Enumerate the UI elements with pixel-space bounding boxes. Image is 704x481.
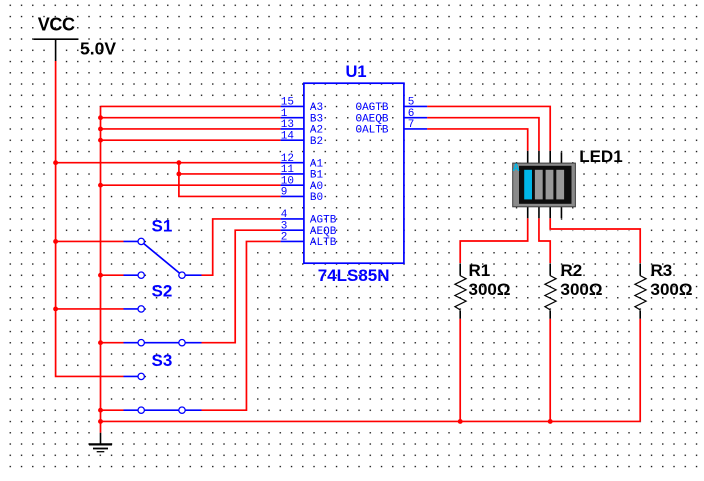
svg-text:OAGTB: OAGTB bbox=[355, 102, 388, 114]
svg-text:R3: R3 bbox=[651, 261, 673, 280]
svg-text:AEQB: AEQB bbox=[310, 226, 337, 238]
svg-text:13: 13 bbox=[281, 119, 294, 131]
svg-text:S3: S3 bbox=[152, 351, 173, 370]
svg-text:7: 7 bbox=[408, 119, 415, 131]
svg-text:R1: R1 bbox=[469, 261, 491, 280]
svg-text:U1: U1 bbox=[346, 63, 367, 81]
svg-text:A3: A3 bbox=[310, 102, 323, 114]
svg-text:B1: B1 bbox=[310, 170, 324, 182]
svg-text:OALTB: OALTB bbox=[355, 125, 388, 137]
svg-text:14: 14 bbox=[281, 130, 295, 142]
svg-text:11: 11 bbox=[281, 164, 295, 176]
svg-text:1: 1 bbox=[281, 108, 288, 120]
svg-text:B2: B2 bbox=[310, 136, 323, 148]
svg-text:12: 12 bbox=[281, 153, 294, 165]
svg-text:300Ω: 300Ω bbox=[469, 280, 511, 299]
svg-text:R2: R2 bbox=[561, 261, 583, 280]
svg-text:4: 4 bbox=[281, 209, 288, 221]
svg-text:AGTB: AGTB bbox=[310, 215, 337, 227]
svg-text:2: 2 bbox=[281, 232, 288, 244]
svg-text:A: A bbox=[513, 163, 520, 175]
svg-text:OAEQB: OAEQB bbox=[355, 113, 388, 125]
svg-text:S1: S1 bbox=[152, 216, 173, 235]
svg-text:5: 5 bbox=[408, 97, 415, 109]
svg-text:B0: B0 bbox=[310, 192, 323, 204]
svg-text:B3: B3 bbox=[310, 113, 323, 125]
svg-text:6: 6 bbox=[408, 108, 415, 120]
svg-text:VCC: VCC bbox=[38, 15, 75, 35]
svg-text:A2: A2 bbox=[310, 125, 323, 137]
svg-text:A1: A1 bbox=[310, 158, 324, 170]
svg-text:5.0V: 5.0V bbox=[80, 39, 116, 59]
svg-text:9: 9 bbox=[281, 187, 288, 199]
svg-text:300Ω: 300Ω bbox=[561, 280, 603, 299]
svg-text:74LS85N: 74LS85N bbox=[318, 266, 390, 285]
svg-text:300Ω: 300Ω bbox=[651, 280, 693, 299]
svg-text:ALTB: ALTB bbox=[310, 237, 337, 249]
svg-text:10: 10 bbox=[281, 175, 294, 187]
svg-text:S2: S2 bbox=[152, 281, 173, 300]
svg-text:LED1: LED1 bbox=[579, 147, 622, 166]
svg-text:3: 3 bbox=[281, 220, 288, 232]
svg-text:A0: A0 bbox=[310, 181, 323, 193]
svg-text:15: 15 bbox=[281, 97, 294, 109]
